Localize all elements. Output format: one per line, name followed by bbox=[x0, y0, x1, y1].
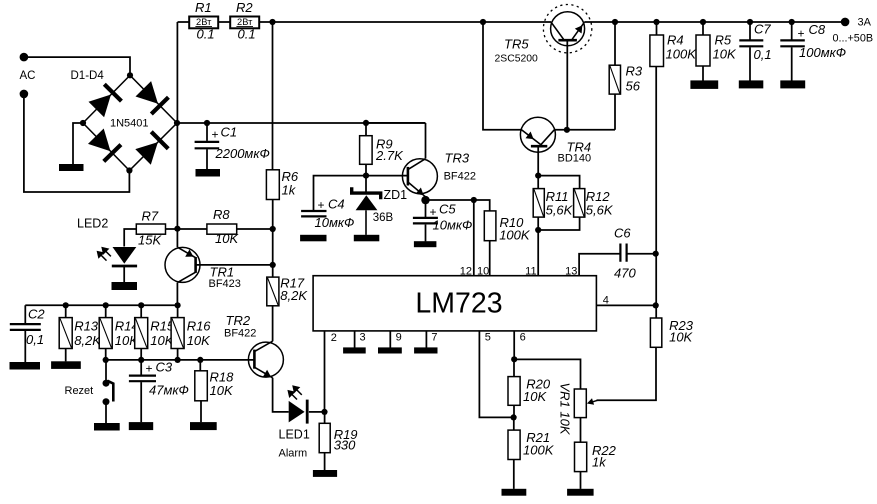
wire node ZD1 to C4 bbox=[314, 176, 367, 211]
value C1 2200мкФ bbox=[215, 146, 270, 161]
svg-text:C1: C1 bbox=[221, 125, 238, 140]
capacitor C3 bbox=[129, 376, 156, 382]
node top rail / R3 bbox=[612, 19, 618, 25]
wire R22 bottom to ground bbox=[580, 472, 582, 489]
wire pin 6 down bbox=[513, 331, 515, 359]
svg-text:10мкФ: 10мкФ bbox=[433, 218, 473, 233]
svg-text:Alarm: Alarm bbox=[279, 448, 308, 460]
wire AC top terminal to bridge top bbox=[24, 57, 130, 75]
diode D1 (bridge left-top) bbox=[89, 84, 122, 117]
bridge rectifier D1-D4 diamond outline bbox=[83, 75, 177, 170]
svg-text:LED1: LED1 bbox=[279, 428, 310, 442]
wire R23 bottom to VR1 wiper bbox=[597, 347, 657, 400]
wire C8 stem bbox=[791, 22, 793, 81]
wire R3 bottom stub bbox=[614, 94, 616, 130]
node bridge left bbox=[80, 120, 86, 126]
svg-text:0,1: 0,1 bbox=[26, 332, 44, 347]
svg-text:2: 2 bbox=[331, 332, 337, 344]
terminal AC bottom bbox=[20, 90, 29, 99]
label R20 bbox=[526, 377, 551, 392]
ground (pin 7) bbox=[414, 347, 437, 353]
svg-text:R16: R16 bbox=[187, 319, 212, 334]
wire C7 stem bbox=[749, 22, 751, 81]
value C5 10мкФ bbox=[433, 218, 473, 233]
wire C5 bottom stem bbox=[425, 225, 427, 242]
switch Rezet lever bbox=[107, 381, 113, 402]
svg-text:0.1: 0.1 bbox=[238, 27, 256, 42]
part TR5 2SC5200 bbox=[495, 53, 539, 64]
wire pin 13 to C6 bbox=[579, 254, 619, 276]
bridge label D1-D4 bbox=[71, 70, 105, 82]
node R18 top bbox=[197, 357, 203, 363]
label LED1 bbox=[279, 428, 310, 442]
node TR1 base / R17 top bbox=[270, 262, 276, 268]
value R8 10K bbox=[215, 231, 239, 246]
svg-text:TR2: TR2 bbox=[226, 313, 251, 328]
label R16 bbox=[187, 319, 212, 334]
zener ZD1 bbox=[352, 176, 381, 235]
capacitor C6 bbox=[620, 244, 626, 262]
resistor R4 bbox=[650, 35, 664, 67]
pin 13 label bbox=[565, 266, 577, 278]
svg-text:2SC5200: 2SC5200 bbox=[495, 53, 539, 64]
node bridge bottom bbox=[126, 167, 132, 173]
node top rail / R5 bbox=[700, 19, 706, 25]
node TR5 base / TR4 collector bbox=[564, 127, 570, 133]
wire pin 7 ground stub bbox=[425, 331, 427, 348]
svg-text:15K: 15K bbox=[138, 233, 162, 248]
value R18 10K bbox=[210, 383, 234, 398]
resistor R8 bbox=[207, 224, 237, 234]
svg-text:+: + bbox=[318, 198, 325, 212]
pin 12 label bbox=[460, 266, 472, 278]
capacitor C8 bbox=[780, 40, 805, 46]
label TR4 bbox=[567, 139, 592, 154]
wire R14 stubs bbox=[105, 305, 107, 360]
value R22 1k bbox=[592, 455, 607, 470]
wire raw DC rail y=123 (bridge to TR3 collector) bbox=[177, 122, 426, 124]
svg-text:0...+50В: 0...+50В bbox=[833, 33, 874, 45]
svg-text:11: 11 bbox=[525, 266, 536, 278]
resistor R12 bbox=[574, 189, 585, 218]
wire C6 to R4 column bbox=[628, 253, 656, 255]
value R13 8,2K bbox=[74, 333, 102, 348]
svg-text:LM723: LM723 bbox=[415, 288, 502, 320]
wire row y=360 to TR2 base bbox=[106, 359, 255, 361]
wire R11 bottom to pin 11 bbox=[537, 217, 539, 276]
wire +V feed to TR4 emitter bbox=[483, 22, 522, 130]
ground (C4) bbox=[300, 235, 326, 242]
svg-text:0.1: 0.1 bbox=[197, 27, 215, 42]
pin 7 label bbox=[431, 331, 437, 343]
svg-text:R3: R3 bbox=[626, 64, 643, 79]
wire R4 top stub bbox=[656, 22, 658, 35]
pin 5 label bbox=[485, 331, 491, 343]
node C3 top bbox=[138, 357, 144, 363]
wire R16 stubs bbox=[177, 305, 179, 360]
svg-text:VR1 10K: VR1 10K bbox=[558, 383, 573, 436]
value R20 10K bbox=[523, 389, 547, 404]
label R6 bbox=[282, 169, 299, 184]
svg-text:R4: R4 bbox=[667, 33, 684, 48]
svg-text:8,2K: 8,2K bbox=[280, 288, 308, 303]
C1 plus bbox=[212, 128, 219, 142]
wire TR5 base vertical bbox=[566, 40, 568, 130]
svg-text:6: 6 bbox=[520, 331, 526, 343]
label C1 bbox=[221, 125, 238, 140]
label C7 bbox=[754, 22, 771, 37]
wire R3 top stub bbox=[614, 22, 616, 65]
label Alarm bbox=[279, 448, 308, 460]
ground (Rezet) bbox=[94, 423, 120, 431]
wire R8 to R6 column bbox=[237, 228, 273, 230]
label R23 bbox=[669, 318, 694, 333]
wire R11 top stub bbox=[537, 176, 539, 189]
svg-text:R13: R13 bbox=[74, 319, 99, 334]
value R14 10K bbox=[115, 333, 139, 348]
svg-text:C2: C2 bbox=[28, 307, 45, 322]
wire pin 3 ground stub bbox=[354, 331, 356, 348]
capacitor C7 bbox=[739, 40, 763, 46]
svg-text:C6: C6 bbox=[614, 226, 631, 241]
ground (LED2) bbox=[112, 282, 138, 290]
svg-text:LED2: LED2 bbox=[77, 217, 108, 231]
label R4 bbox=[667, 33, 684, 48]
wire R7 to R8 bbox=[166, 228, 207, 230]
pin 4 label bbox=[603, 294, 609, 306]
svg-text:+: + bbox=[212, 128, 219, 142]
wire pin 12 vertical bbox=[473, 200, 475, 276]
wire TR1 base to R6 column bbox=[196, 264, 273, 266]
wire R15 stubs bbox=[140, 305, 142, 360]
wire R9 node to TR3 collector bbox=[366, 122, 426, 124]
svg-text:470: 470 bbox=[614, 265, 636, 280]
wire TR3 collector vertical bbox=[425, 123, 427, 159]
diode D4 (bridge bottom-right) bbox=[135, 132, 168, 165]
wire TR4 collector to R3 bottom bbox=[554, 129, 615, 131]
C3 plus bbox=[146, 362, 153, 376]
op-amp U1 LM723 body bbox=[313, 276, 596, 331]
C8 plus bbox=[798, 27, 805, 41]
label output 3А bbox=[858, 17, 872, 29]
label TR5 bbox=[504, 37, 529, 52]
pin 2 label bbox=[331, 332, 337, 344]
value R19 330 bbox=[334, 437, 356, 452]
value R15 10K bbox=[150, 333, 174, 348]
wire C3 stems bbox=[140, 360, 142, 422]
wire Rezet bottom to ground bbox=[105, 403, 107, 423]
label R11 bbox=[546, 189, 569, 204]
svg-text:10K: 10K bbox=[210, 383, 234, 398]
wire R19 stubs bbox=[324, 412, 326, 470]
resistor R17 bbox=[267, 277, 279, 306]
svg-text:10: 10 bbox=[477, 266, 489, 278]
svg-text:R8: R8 bbox=[213, 207, 230, 222]
ground (pin 9) bbox=[378, 347, 402, 353]
svg-text:ZD1: ZD1 bbox=[384, 188, 408, 202]
node pin 6 / R20 bbox=[511, 356, 517, 362]
svg-text:1k: 1k bbox=[282, 182, 297, 197]
wire R5 top stub bbox=[702, 22, 704, 35]
value C4 10мкФ bbox=[315, 215, 355, 230]
svg-text:47мкФ: 47мкФ bbox=[149, 383, 189, 398]
value C7 0,1 bbox=[754, 47, 772, 62]
svg-text:5,6K: 5,6K bbox=[546, 203, 574, 218]
part TR3 BF422 bbox=[444, 171, 476, 183]
label C2 bbox=[28, 307, 45, 322]
svg-text:+: + bbox=[146, 362, 153, 376]
wire pin 9 ground stub bbox=[389, 331, 391, 348]
wire R11/R12 bottom link bbox=[538, 217, 579, 230]
label R5 bbox=[715, 33, 732, 48]
transistor TR1 (BF423) bbox=[165, 247, 200, 282]
svg-text:5: 5 bbox=[485, 331, 491, 343]
value R3 56 bbox=[626, 79, 641, 94]
value ZD1 36В bbox=[373, 212, 394, 224]
svg-text:BF422: BF422 bbox=[224, 327, 256, 339]
node V+ / pin 12 bbox=[471, 197, 477, 203]
node R14 bottom / Rezet bbox=[103, 357, 109, 363]
label C8 bbox=[809, 22, 826, 37]
svg-text:10K: 10K bbox=[669, 330, 693, 345]
terminal AC top bbox=[20, 53, 29, 62]
ground (C3) bbox=[129, 422, 153, 430]
node bridge top bbox=[127, 72, 133, 78]
wire VR1 bottom to R22 bbox=[580, 418, 582, 443]
label R7 bbox=[142, 209, 159, 224]
label ZD1 bbox=[384, 188, 408, 202]
bridge label 1N5401 bbox=[110, 118, 149, 130]
resistor R7 bbox=[136, 224, 165, 234]
svg-text:AC: AC bbox=[20, 70, 36, 82]
node LED1 / R19 / pin 2 bbox=[321, 409, 327, 415]
ground (R18) bbox=[190, 422, 217, 430]
value C8 100мкФ bbox=[799, 45, 846, 60]
wire R17 bottom to TR2 collector bbox=[272, 306, 274, 342]
C5 plus bbox=[430, 205, 437, 219]
value R23 10K bbox=[669, 330, 693, 345]
VR1 wiper arrow bbox=[587, 398, 598, 404]
node top rail / C7 bbox=[747, 19, 753, 25]
node C6 / R4 column bbox=[653, 251, 659, 257]
svg-text:10K: 10K bbox=[215, 231, 239, 246]
svg-text:R7: R7 bbox=[142, 209, 159, 224]
label R19 bbox=[334, 427, 358, 442]
label C4 bbox=[328, 197, 345, 212]
resistor R6 bbox=[266, 170, 279, 200]
resistor R16 bbox=[171, 318, 184, 349]
diode D3 (bridge left-bottom) bbox=[88, 129, 121, 162]
capacitor C4 bbox=[301, 211, 326, 216]
node R7/R8/TR1 emitter bbox=[174, 226, 180, 232]
capacitor C5 bbox=[413, 218, 438, 224]
wire top rail left (R1 input to TR5 collector) bbox=[178, 21, 552, 23]
ground (R19) bbox=[313, 470, 337, 477]
value R17 8,2K bbox=[280, 288, 308, 303]
resistor R2 bbox=[230, 17, 259, 29]
capacitor C1 bbox=[195, 142, 220, 148]
svg-text:3А: 3А bbox=[858, 17, 872, 29]
resistor R10 bbox=[484, 211, 496, 241]
node ZD1 / R9 / C4 / TR3 base bbox=[363, 173, 369, 179]
LED LED2 bbox=[97, 247, 138, 266]
label Rezet bbox=[65, 385, 94, 397]
svg-text:2.7K: 2.7K bbox=[375, 148, 404, 163]
value R9 2.7K bbox=[375, 148, 404, 163]
value R5 10K bbox=[713, 46, 737, 61]
node R14 top bbox=[103, 302, 109, 308]
diode D2 (bridge top-right) bbox=[136, 81, 169, 114]
ground (C5) bbox=[414, 241, 437, 247]
value R6 1k bbox=[282, 182, 297, 197]
ground (C1) bbox=[196, 169, 221, 177]
pin 9 label bbox=[396, 331, 402, 343]
value R10 100K bbox=[499, 227, 531, 242]
wire R6 bottom to R8/TR1 nodes bbox=[272, 200, 274, 278]
value C6 470 bbox=[614, 265, 636, 280]
svg-text:12: 12 bbox=[460, 266, 472, 278]
label R9 bbox=[376, 136, 393, 151]
svg-text:1N5401: 1N5401 bbox=[110, 118, 149, 130]
switch Rezet contacts bbox=[103, 380, 110, 406]
resistor R1 bbox=[189, 17, 218, 29]
ground (R22) bbox=[567, 489, 594, 496]
transistor TR5 (2SC5200) with dotted ring bbox=[543, 5, 591, 53]
label R1 bbox=[195, 0, 212, 15]
ground (C7) bbox=[739, 80, 764, 88]
label R21 bbox=[526, 430, 550, 445]
wire AC bottom terminal to bridge bottom bbox=[24, 94, 129, 192]
wire pin 4 bbox=[596, 304, 655, 306]
wire bridge left vertex to ground bbox=[73, 123, 83, 165]
svg-text:1k: 1k bbox=[592, 455, 607, 470]
svg-text:C5: C5 bbox=[439, 202, 456, 217]
label TR2 bbox=[226, 313, 251, 328]
label R18 bbox=[210, 370, 235, 385]
label R10 bbox=[500, 215, 525, 230]
svg-text:TR5: TR5 bbox=[504, 37, 529, 52]
svg-text:0,1: 0,1 bbox=[754, 47, 772, 62]
svg-text:C4: C4 bbox=[328, 197, 345, 212]
wire Rezet top stub bbox=[105, 360, 107, 382]
svg-text:8,2K: 8,2K bbox=[74, 333, 102, 348]
value R7 15K bbox=[138, 233, 162, 248]
svg-text:BD140: BD140 bbox=[558, 152, 592, 164]
transistor TR3 (BF422) bbox=[402, 159, 437, 200]
label TR3 bbox=[445, 150, 470, 165]
ground (bridge) bbox=[59, 164, 84, 171]
wire R20 stubs bbox=[513, 359, 515, 417]
pin 3 label bbox=[360, 331, 366, 343]
part TR2 BF422 bbox=[224, 327, 256, 339]
svg-text:100мкФ: 100мкФ bbox=[799, 45, 846, 60]
node top rail / R2 out bbox=[269, 19, 275, 25]
svg-text:100K: 100K bbox=[523, 443, 555, 458]
svg-text:4: 4 bbox=[603, 294, 609, 306]
potentiometer VR1 bbox=[574, 389, 586, 418]
svg-text:10K: 10K bbox=[187, 333, 211, 348]
node top rail / R4 bbox=[653, 19, 659, 25]
node C1 tap bbox=[204, 120, 210, 126]
label R2 bbox=[236, 0, 253, 15]
wire R4 bottom long column bbox=[655, 67, 657, 319]
ground (ZD1) bbox=[354, 235, 380, 242]
svg-text:+: + bbox=[798, 27, 805, 41]
node R16 bottom bbox=[175, 357, 181, 363]
svg-text:Rezet: Rezet bbox=[65, 385, 94, 397]
svg-text:3: 3 bbox=[360, 331, 366, 343]
ground (R13) bbox=[51, 361, 81, 369]
label output 0...+50В bbox=[833, 33, 874, 45]
ground (C2) bbox=[10, 362, 41, 370]
pin 10 label bbox=[477, 266, 489, 278]
label VR1 10K (rotated) bbox=[558, 383, 573, 436]
transistor TR4 (BD140) bbox=[520, 117, 555, 152]
value R11 5,6K bbox=[546, 203, 574, 218]
wire TR4 base vertical bbox=[537, 146, 539, 175]
label AC bbox=[20, 70, 36, 82]
wire R13 stubs bbox=[65, 305, 67, 361]
resistor R20 bbox=[508, 377, 520, 406]
transistor TR2 (BF422) bbox=[248, 341, 283, 378]
resistor R15 bbox=[135, 318, 148, 349]
wire node ZD1 to TR3 base bbox=[366, 175, 408, 177]
svg-text:BF423: BF423 bbox=[209, 278, 241, 290]
svg-text:56: 56 bbox=[626, 79, 641, 94]
resistor R13 bbox=[59, 318, 72, 349]
wire R9 bottom to ZD1 node bbox=[365, 164, 367, 175]
wire pin 5 to R20/R21 node bbox=[479, 331, 513, 418]
resistor R11 bbox=[533, 189, 544, 218]
label R22 bbox=[592, 443, 617, 458]
label R3 bbox=[626, 64, 643, 79]
wire R10 bottom to pin 10 bbox=[489, 241, 491, 276]
resistor R19 bbox=[319, 423, 330, 452]
wire TR1 collector down bbox=[176, 283, 178, 306]
svg-text:D1-D4: D1-D4 bbox=[71, 70, 105, 82]
node R9 top bbox=[363, 120, 369, 126]
wire TR3 emitter node to C5 bbox=[425, 200, 427, 217]
resistor R5 bbox=[696, 35, 710, 66]
value C3 47мкФ bbox=[149, 383, 189, 398]
svg-text:5,6K: 5,6K bbox=[586, 203, 614, 218]
value R4 100K bbox=[666, 46, 698, 61]
node TR3 emitter / C5 / V+ bbox=[421, 196, 429, 204]
label R13 bbox=[74, 319, 99, 334]
label R12 bbox=[586, 189, 611, 204]
wire LED1 cathode to node bbox=[309, 411, 325, 413]
wire LED2 cathode to ground bbox=[123, 267, 125, 282]
svg-text:2200мкФ: 2200мкФ bbox=[215, 146, 270, 161]
resistor R22 bbox=[575, 442, 587, 471]
resistor R14 bbox=[99, 318, 112, 349]
capacitor C2 bbox=[10, 324, 41, 330]
node R15 top bbox=[138, 302, 144, 308]
svg-text:36В: 36В bbox=[373, 212, 394, 224]
node R11/R12 bottom / pin 11 bbox=[535, 227, 541, 233]
svg-text:R2: R2 bbox=[236, 0, 253, 15]
value R21 100K bbox=[523, 443, 555, 458]
wire R11/R12 top link bbox=[538, 176, 579, 189]
value R12 5,6K bbox=[586, 203, 614, 218]
node top rail / TR4 feed bbox=[480, 19, 486, 25]
part TR4 BD140 bbox=[558, 152, 592, 164]
svg-text:7: 7 bbox=[431, 331, 437, 343]
wire C2 stem bbox=[24, 305, 26, 362]
label C3 bbox=[156, 359, 173, 374]
node R16 top / TR1 collector bbox=[175, 302, 181, 308]
wire R6 column from top rail bbox=[272, 22, 274, 170]
